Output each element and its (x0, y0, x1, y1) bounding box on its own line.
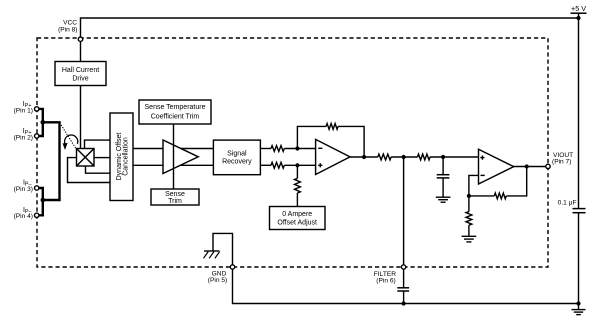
wire SR lower output (260, 164, 271, 166)
resistor R8 pulldown (466, 212, 472, 226)
resistor R4 (378, 154, 391, 160)
label VCC (Pin 8) (58, 20, 77, 34)
ground (bottom right) (572, 304, 586, 315)
resistor R3 feedback (326, 124, 338, 130)
wire amp1 lower output to Signal Recovery (172, 164, 213, 166)
ground (C1) (436, 197, 451, 202)
svg-text:(Pin 5): (Pin 5) (208, 277, 227, 284)
capacitor C1 (437, 157, 450, 197)
wire buffer feedback right (506, 167, 526, 196)
wire pulldown (468, 196, 470, 236)
wire amp1 upper output to Signal Recovery (172, 148, 213, 150)
wire VCC pin to Hall Current Drive (80, 41, 82, 61)
Hall element X1 (77, 149, 95, 167)
resistor R2 (lower) (271, 162, 284, 168)
svg-text:Drive: Drive (72, 75, 88, 82)
node amp2 non-inverting input junction (295, 163, 299, 167)
node FILTER tap junction (402, 155, 406, 159)
svg-text:Signal: Signal (227, 150, 247, 157)
pin VIOUT (Pin 7) (546, 164, 550, 168)
wire R4 to R5 (391, 156, 417, 158)
capacitor 0.1 uF bypass (573, 209, 586, 213)
pin IP- (Pin 3) label (14, 180, 33, 193)
wire DOC to amp1 upper input (133, 148, 163, 150)
wire thick conductor pin3/pin4 bracket (39, 188, 43, 215)
buffer minus sign (481, 174, 485, 176)
wire Hall Current Drive to Hall element (80, 86, 82, 149)
pin IP- (Pin 4) label (14, 207, 33, 220)
pin IP+ (Pin 1) label (14, 101, 33, 114)
svg-text:0 Ampere: 0 Ampere (282, 211, 312, 218)
wire trim line through amp1 (173, 124, 175, 189)
svg-text:Offset Adjust: Offset Adjust (277, 219, 317, 226)
svg-text:(Pin 6): (Pin 6) (376, 278, 395, 285)
svg-text:Coefficient Trim: Coefficient Trim (151, 114, 200, 121)
op-amp A3 buffer (479, 149, 514, 184)
svg-text:(Pin 2): (Pin 2) (14, 134, 33, 141)
node filter cap bottom junction (402, 301, 406, 305)
pin IP+ (Pin 2) label (14, 128, 33, 141)
pin VCC (Pin 8) (78, 37, 82, 41)
block Sense Temperature Coefficient Trim (139, 100, 211, 124)
resistor R7 feedback (494, 193, 506, 199)
wire buffer feedback left (469, 195, 494, 197)
pin IP+ (Pin 1) terminal (35, 107, 39, 111)
flux line (dotted) (60, 123, 76, 148)
wire amp2 feedback loop (297, 126, 364, 157)
block Signal Recovery (213, 140, 260, 175)
svg-text:(Pin 8): (Pin 8) (58, 26, 77, 33)
svg-text:(Pin 3): (Pin 3) (14, 186, 33, 193)
node feedback tap junction (362, 155, 366, 159)
svg-text:Sense Temperature: Sense Temperature (145, 104, 206, 111)
node buffer feedback junction (467, 194, 471, 198)
op-amp A2 (316, 139, 350, 174)
pin IP- (Pin 4) terminal (35, 213, 39, 217)
wire Hall top terminal to DOC (85, 140, 111, 148)
wire R2 to amp2 non-inverting input (284, 164, 315, 166)
wire bottom ground rail (233, 269, 579, 303)
svg-text:(Pin 1): (Pin 1) (14, 107, 33, 114)
wire buffer output to VIOUT (513, 166, 546, 168)
chip outline (dashed box) (37, 38, 548, 267)
wire SR upper output (260, 148, 271, 150)
block Dynamic Offset Cancellation (110, 113, 133, 201)
amp2 plus sign (318, 163, 322, 167)
block Sense Trim (151, 189, 199, 205)
wire Hall bottom terminal to DOC (86, 166, 111, 173)
node cap tap junction (441, 155, 445, 159)
wire buffer inverting input loop (469, 175, 479, 196)
field rotation arrow (63, 135, 78, 150)
block Hall Current Drive (55, 62, 106, 86)
ground (internal chassis) (204, 251, 220, 258)
resistor R6 offset (295, 178, 301, 193)
svg-text:Recovery: Recovery (222, 159, 252, 166)
resistor R5 (418, 154, 431, 160)
buffer plus sign (480, 156, 484, 160)
pin IP- (Pin 3) terminal (35, 186, 39, 190)
ground (buffer) (462, 236, 477, 242)
pin FILTER (Pin 6) (401, 265, 405, 269)
svg-text:Trim: Trim (168, 198, 182, 205)
wire GND pin to internal ground (213, 233, 233, 264)
node junction pins 1-2 (41, 120, 46, 125)
node output feedback tap (525, 164, 529, 168)
node amp2 inverting input junction (295, 146, 299, 150)
node bottom-right junction (576, 301, 580, 305)
wire to 0 Ampere Offset Adjust (296, 165, 298, 206)
wire Hall right terminal to DOC (94, 157, 110, 159)
capacitor C2 filter (397, 269, 409, 303)
svg-text:(Pin 4): (Pin 4) (14, 213, 33, 220)
svg-text:0.1 μF: 0.1 μF (558, 200, 577, 207)
block 0 Ampere Offset Adjust (270, 207, 326, 230)
wire amp2 output (349, 156, 378, 158)
svg-text:Hall Current: Hall Current (62, 67, 99, 74)
wire DOC to amp1 lower input (133, 164, 163, 166)
svg-text:(Pin 7): (Pin 7) (552, 159, 571, 166)
wire R5 to buffer input (430, 156, 479, 158)
label FILTER (Pin 6) (374, 271, 396, 285)
wire R1 to amp2 inverting input (284, 148, 315, 150)
wire thick conductor pin1/pin2 bracket (39, 109, 43, 136)
amp2 minus sign (318, 147, 322, 149)
svg-text:Cancellation: Cancellation (122, 137, 129, 176)
wire thick conductor main loop (43, 122, 60, 200)
svg-text:+5 V: +5 V (571, 4, 586, 13)
op-amp A1 (163, 140, 198, 174)
wire FILTER pin up to signal (403, 157, 405, 265)
label VIOUT (Pin 7) (552, 152, 573, 166)
+5 V supply symbol (571, 4, 587, 18)
resistor R1 (upper) (271, 146, 284, 152)
node junction pins 3-4 (41, 198, 46, 203)
label GND (Pin 5) (208, 271, 227, 285)
pin GND (Pin 5) (230, 265, 234, 269)
node top-right junction (576, 16, 580, 20)
wire Hall left terminal wrap-around to DOC (68, 158, 111, 183)
pin IP+ (Pin 2) terminal (35, 134, 39, 138)
wire +5V rail down right side (578, 18, 580, 304)
wire VCC pin to +5V rail (top) (81, 18, 579, 37)
